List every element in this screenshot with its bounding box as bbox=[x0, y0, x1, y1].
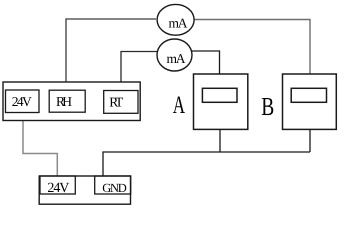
svg-text:RH: RH bbox=[56, 94, 72, 109]
milliammeter U2 bbox=[157, 39, 192, 71]
terminal GND bbox=[95, 176, 131, 194]
terminal 24V (left box) bbox=[6, 90, 40, 113]
svg-text:mA: mA bbox=[167, 51, 186, 66]
wire: left box to milliammeter U1 bbox=[66, 19, 156, 82]
bottom supply box bbox=[39, 176, 130, 204]
wire: box A bottom to ground bus bbox=[219, 129, 221, 152]
svg-text:24V: 24V bbox=[12, 94, 32, 109]
wire: ground bus bbox=[103, 152, 310, 176]
inner window of box A bbox=[202, 88, 237, 102]
wire: milliammeter U1 to box B top bbox=[194, 20, 310, 74]
terminal 24V (bottom box) bbox=[40, 176, 75, 194]
svg-text:24V: 24V bbox=[47, 181, 69, 196]
box A (sensor A) bbox=[194, 74, 248, 129]
wire: milliammeter U2 to box A top bbox=[191, 51, 220, 74]
terminal RH bbox=[49, 90, 85, 112]
terminal RT bbox=[104, 91, 138, 114]
box B (sensor B) bbox=[283, 74, 337, 129]
wire: left box to milliammeter U2 bbox=[121, 52, 158, 83]
svg-text:B: B bbox=[261, 92, 274, 121]
svg-text:GND: GND bbox=[102, 181, 127, 195]
svg-text:RT: RT bbox=[109, 94, 124, 109]
milliammeter U1 bbox=[157, 4, 194, 35]
wire: 24V supply to bottom terminal 24V bbox=[23, 121, 57, 177]
left controller box bbox=[3, 82, 140, 121]
wire: box B bottom to ground bus bbox=[309, 129, 311, 152]
svg-text:mA: mA bbox=[169, 15, 188, 30]
inner window of box B bbox=[291, 88, 326, 102]
svg-text:A: A bbox=[173, 92, 185, 119]
